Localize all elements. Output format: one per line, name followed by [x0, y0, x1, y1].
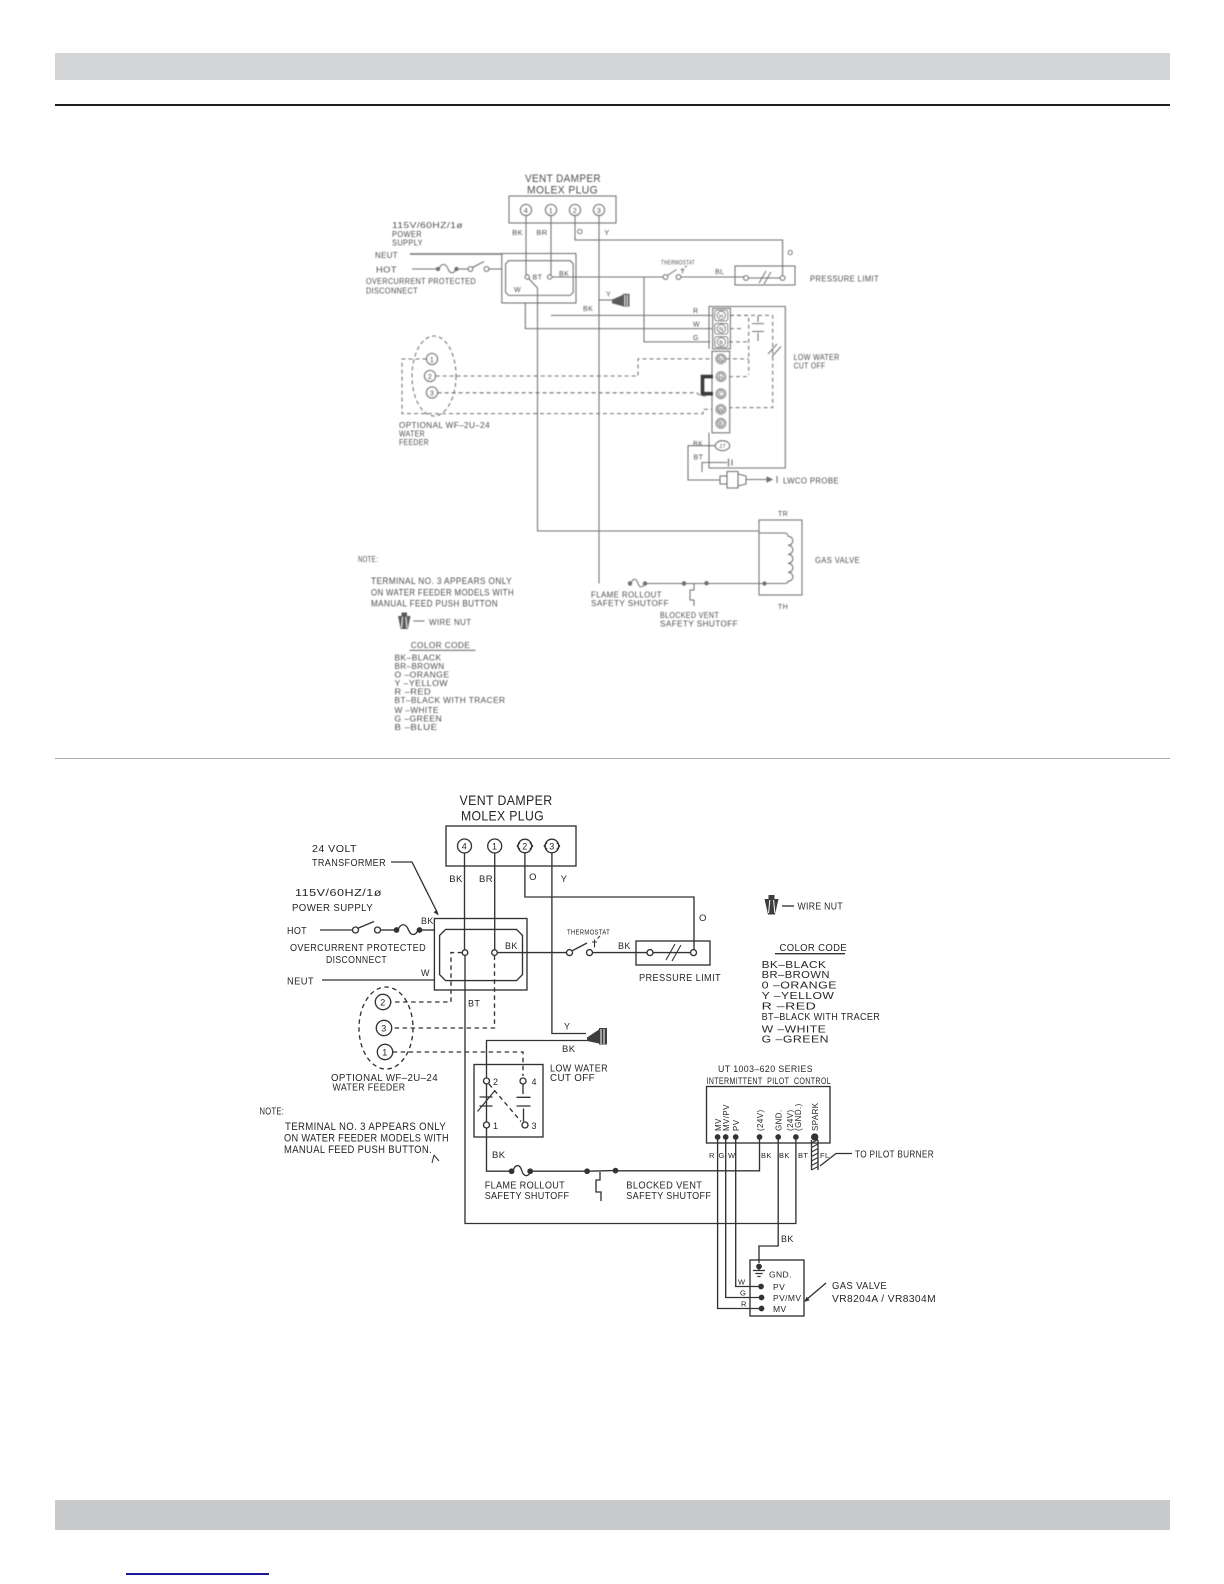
wire R from pilot MV to gas valve MV: [718, 1140, 760, 1309]
svg-text:BT: BT: [798, 1151, 808, 1160]
svg-text:O: O: [699, 913, 707, 924]
fuse on HOT line: [436, 265, 458, 273]
pilot terminal MV: [714, 1118, 723, 1139]
gas valve coil: [759, 533, 793, 584]
svg-text:VENT DAMPER: VENT DAMPER: [460, 792, 553, 808]
wire nut legend dash: [782, 905, 794, 907]
pin 3: [544, 839, 560, 853]
wire HOT segment: [320, 929, 353, 931]
svg-text:SUPPLY: SUPPLY: [392, 239, 423, 248]
svg-text:Y: Y: [604, 228, 609, 237]
svg-text:BK: BK: [505, 941, 518, 951]
transformer T1 outer box: [434, 919, 527, 991]
wire blocked vent to gas valve TH: [708, 583, 759, 585]
water feeder terminal 3: [426, 387, 437, 398]
dashed wire feeder2 to terminal N2: [436, 359, 712, 376]
svg-text:2: 2: [428, 374, 432, 381]
svg-text:WIRE NUT: WIRE NUT: [798, 901, 844, 913]
svg-text:BT: BT: [694, 455, 704, 462]
svg-text:CUT OFF: CUT OFF: [550, 1073, 595, 1084]
terminal B upper: [715, 337, 728, 348]
svg-text:1: 1: [430, 357, 434, 364]
svg-text:J7: J7: [719, 444, 726, 450]
LWCO box: [474, 1065, 543, 1138]
wire rollout to blocked vent: [532, 1170, 585, 1172]
svg-text:GAS VALVE: GAS VALVE: [832, 1281, 887, 1292]
svg-text:Y: Y: [561, 874, 568, 885]
terminal N lower: [716, 354, 726, 364]
svg-text:COLOR CODE: COLOR CODE: [780, 942, 848, 954]
svg-text:OVERCURRENT PROTECTED: OVERCURRENT PROTECTED: [290, 943, 426, 954]
junction box T1 outer: [502, 254, 576, 304]
svg-text:POWER SUPPLY: POWER SUPPLY: [292, 903, 373, 914]
svg-text:SAFETY SHUTOFF: SAFETY SHUTOFF: [591, 599, 669, 608]
wire BK from pilot GND to gas valve GND: [759, 1140, 778, 1264]
svg-text:3: 3: [597, 208, 601, 215]
terminal N upper: [715, 323, 728, 334]
svg-text:1: 1: [492, 842, 497, 852]
disconnect switch SW1: [458, 262, 502, 272]
disconnect switch SW1: [353, 922, 395, 934]
wire W from pilot PV to gas valve PV: [736, 1140, 758, 1287]
pilot terminal 24V: [756, 1109, 765, 1139]
low water cut off label: [550, 1064, 608, 1085]
connector J1 vent damper molex plug body: [509, 196, 616, 223]
pilot control U1 box: [707, 1087, 831, 1144]
dashed wire BT from terminal A to feeder 2: [391, 953, 463, 1002]
terminal A in transformer: [462, 950, 468, 956]
wire rollout to blocked vent: [647, 583, 683, 585]
svg-text:(GND.): (GND.): [794, 1103, 803, 1131]
svg-text:TERMINAL NO. 3 APPEARS ONLY: TERMINAL NO. 3 APPEARS ONLY: [285, 1121, 446, 1133]
svg-text:W: W: [718, 408, 724, 414]
svg-text:BT–BLACK WITH TRACER: BT–BLACK WITH TRACER: [395, 696, 506, 705]
svg-text:BK: BK: [492, 1150, 506, 1161]
gas valve terminal MV: [759, 1304, 786, 1314]
overcurrent protected disconnect label: [290, 943, 426, 966]
terminal H upper: [715, 310, 728, 321]
terminal H lower: [716, 372, 726, 382]
wire NEUT to junction box: [410, 253, 502, 255]
LWCO terminal 2: [484, 1077, 499, 1087]
svg-text:R: R: [741, 1300, 747, 1309]
wire molex pin4 to terminal A: [525, 216, 527, 275]
wire molex pin3 Y down to wire nut: [552, 853, 586, 1034]
wire terminal A blade down to gas valve TR: [529, 279, 759, 531]
svg-text:N: N: [719, 357, 723, 363]
svg-text:4: 4: [524, 208, 528, 215]
svg-text:1: 1: [549, 208, 553, 215]
svg-text:R: R: [709, 1151, 715, 1160]
svg-text:BK: BK: [562, 1044, 576, 1055]
wire R row to terminal H: [551, 314, 712, 316]
svg-text:G: G: [740, 1289, 746, 1298]
svg-text:TO PILOT BURNER: TO PILOT BURNER: [855, 1149, 934, 1161]
LWCO probe capacitor symbol between 4 and 3: [517, 1084, 531, 1122]
svg-text:UT 1003–620 SERIES: UT 1003–620 SERIES: [718, 1064, 813, 1074]
svg-text:TERMINAL NO. 3 APPEARS ONLY: TERMINAL NO. 3 APPEARS ONLY: [371, 576, 512, 586]
LWCO probe gap symbol: [752, 316, 764, 341]
gas valve ground symbol: [753, 1264, 765, 1276]
vent damper molex plug title (diagram 1): [525, 173, 601, 197]
svg-text:BK: BK: [421, 916, 434, 926]
svg-text:NOTE:: NOTE:: [358, 554, 378, 564]
svg-text:VENT DAMPER: VENT DAMPER: [525, 173, 601, 185]
svg-text:MOLEX PLUG: MOLEX PLUG: [461, 808, 544, 824]
jumper H to C thick: [703, 377, 714, 394]
svg-text:WIRE NUT: WIRE NUT: [429, 618, 472, 627]
wire HOT segment: [412, 268, 436, 270]
wire G from pilot MV-PV to gas valve PV-MV: [726, 1140, 760, 1298]
wire terminal B to thermostat: [552, 276, 663, 278]
blocked vent label: [626, 1180, 711, 1203]
color code list: [762, 959, 881, 1046]
note label: [260, 1107, 450, 1157]
svg-text:GAS VALVE: GAS VALVE: [815, 556, 860, 565]
pin 3: [593, 204, 604, 215]
thermostat TSTAT1: [567, 936, 601, 956]
pin 1: [545, 204, 556, 215]
svg-text:HOT: HOT: [376, 266, 397, 275]
terminal strip upper group box: [713, 308, 731, 348]
svg-text:ON WATER FEEDER MODELS WITH: ON WATER FEEDER MODELS WITH: [371, 588, 514, 598]
flame rollout sensor: [628, 579, 646, 587]
wire blocked vent to pilot control 24V: [618, 1139, 760, 1171]
LWCO dashed blade terminal 2 to 3: [489, 1084, 521, 1122]
svg-text:LWCO PROBE: LWCO PROBE: [783, 477, 839, 486]
svg-text:BK: BK: [512, 228, 523, 237]
svg-text:W: W: [693, 322, 700, 329]
svg-text:1: 1: [493, 1121, 498, 1131]
wire G branch from thermostat line down to terminal strip: [644, 277, 710, 342]
svg-text:CUT OFF: CUT OFF: [794, 362, 826, 371]
svg-text:FL: FL: [820, 1151, 830, 1160]
svg-text:H: H: [719, 375, 723, 381]
svg-text:O: O: [529, 872, 537, 883]
svg-text:4: 4: [462, 842, 467, 852]
blocked vent switch: [585, 1168, 618, 1201]
pin 2: [569, 204, 580, 215]
svg-text:COLOR CODE: COLOR CODE: [411, 640, 471, 650]
svg-text:BR: BR: [536, 228, 547, 237]
svg-text:TR: TR: [778, 511, 788, 518]
svg-text:BT: BT: [468, 999, 480, 1009]
water feeder ellipse: [412, 336, 456, 416]
wire nut legend symbol: [398, 613, 411, 630]
wire BT hook down: [702, 463, 706, 473]
wire nut W1: [612, 294, 630, 307]
gas valve terminal PV-MV: [759, 1293, 801, 1303]
junction box T1 inner: [506, 261, 574, 296]
svg-text:BT: BT: [533, 275, 543, 282]
svg-text:ON WATER FEEDER MODELS WITH: ON WATER FEEDER MODELS WITH: [284, 1133, 449, 1145]
water feeder terminal 1: [426, 353, 437, 364]
svg-text:G –GREEN: G –GREEN: [762, 1034, 829, 1046]
wire nut W2 at Y junction: [587, 1028, 607, 1045]
svg-text:NEUT: NEUT: [375, 251, 398, 260]
svg-text:SAFETY SHUTOFF: SAFETY SHUTOFF: [660, 620, 738, 629]
pilot terminal MV-PV: [722, 1104, 731, 1139]
wire thermostat to pressure limit: [593, 952, 648, 954]
svg-text:24 VOLT: 24 VOLT: [312, 844, 357, 855]
LWCO enclosure box: [709, 307, 785, 469]
svg-text:W: W: [728, 1151, 736, 1160]
thermostat TSTAT1: [663, 266, 687, 280]
svg-text:2: 2: [522, 842, 527, 852]
overcurrent protected disconnect label: [366, 277, 476, 296]
svg-text:4: 4: [532, 1077, 537, 1087]
wire BK from wire nut through LWCO terminals 2 and 1: [487, 1041, 588, 1079]
svg-text:BK: BK: [779, 1151, 790, 1160]
svg-text:Y: Y: [606, 292, 611, 299]
svg-text:SPARK: SPARK: [811, 1102, 820, 1131]
svg-text:THERMOSTAT: THERMOSTAT: [661, 261, 695, 267]
gas valve GV1 box: [759, 520, 802, 595]
wire molex pin4 BK down through transformer to bottom rail and BT terminal: [465, 853, 796, 1224]
color code list: [395, 654, 506, 733]
optional water feeder label: [331, 1073, 438, 1094]
LWCO terminal 4: [520, 1077, 537, 1087]
flame rollout sensor: [509, 1166, 532, 1176]
svg-text:GND.: GND.: [769, 1270, 792, 1280]
svg-text:3: 3: [430, 390, 434, 397]
connector J1 vent damper molex plug body: [446, 826, 576, 866]
pin 4: [458, 839, 472, 853]
wire molex pin2 O to pressure limit: [525, 853, 694, 949]
svg-text:Y: Y: [564, 1022, 570, 1032]
pilot terminal SPARK: [811, 1102, 820, 1140]
water feeder terminal 1: [377, 1044, 392, 1059]
svg-text:OVERCURRENT PROTECTED: OVERCURRENT PROTECTED: [366, 277, 476, 286]
pilot control bottom labels: [709, 1151, 830, 1160]
flame rollout label: [485, 1180, 570, 1203]
vent damper molex plug title (diagram 2): [460, 792, 553, 824]
svg-text:BK: BK: [618, 941, 631, 951]
svg-text:O: O: [788, 250, 794, 257]
water feeder ellipse: [359, 987, 413, 1069]
optional water feeder label: [399, 421, 490, 447]
terminal A in box: [525, 275, 529, 279]
transformer T1 inner box: [440, 929, 523, 980]
wire molex pin1 BR to terminal B: [494, 853, 496, 950]
pilot terminal PV: [732, 1119, 741, 1139]
water feeder terminal 2: [424, 370, 435, 381]
svg-text:2: 2: [380, 998, 385, 1008]
svg-text:THERMOSTAT: THERMOSTAT: [567, 928, 610, 937]
power supply label: [292, 888, 382, 914]
gas valve terminal PV: [759, 1282, 785, 1292]
svg-text:MANUAL FEED PUSH BUTTON: MANUAL FEED PUSH BUTTON: [371, 599, 498, 609]
svg-text:G: G: [693, 335, 699, 342]
dashed wire feeder1 loop to terminal W: [402, 359, 712, 414]
svg-text:TRANSFORMER: TRANSFORMER: [312, 858, 386, 869]
svg-text:MV/PV: MV/PV: [722, 1104, 731, 1131]
svg-text:INTERMITTENT PILOT CONTROL: INTERMITTENT PILOT CONTROL: [707, 1076, 832, 1086]
blocked vent label: [660, 611, 738, 629]
LWCO terminal 1: [484, 1121, 499, 1131]
pilot terminal GND: [775, 1109, 784, 1139]
svg-text:DISCONNECT: DISCONNECT: [366, 287, 418, 296]
leader to pilot burner label: [820, 1154, 852, 1167]
svg-text:BK: BK: [761, 1151, 772, 1160]
terminal C lower: [716, 389, 726, 399]
svg-text:NOTE:: NOTE:: [260, 1107, 285, 1118]
terminal strip lower group box: [712, 351, 730, 433]
wire thermostat to pressure limit: [681, 276, 744, 278]
svg-text:MV: MV: [773, 1304, 787, 1314]
svg-text:BR: BR: [479, 874, 493, 885]
svg-text:WATER FEEDER: WATER FEEDER: [333, 1083, 406, 1094]
svg-text:TH: TH: [778, 604, 788, 611]
svg-text:2: 2: [573, 208, 577, 215]
pin 4: [520, 204, 531, 215]
svg-text:BK: BK: [693, 441, 703, 448]
dashed wire feeder3 to terminal C: [438, 393, 706, 396]
svg-text:MANUAL FEED PUSH BUTTON.: MANUAL FEED PUSH BUTTON.: [284, 1144, 432, 1156]
fuse on HOT line: [394, 925, 434, 935]
svg-text:O: O: [577, 227, 583, 236]
gas valve label leader: [804, 1283, 826, 1302]
LWCO float switch slashes: [768, 344, 781, 357]
gas valve label: [832, 1281, 936, 1305]
wire LWCO terminal 1 down to flame rollout: [487, 1128, 510, 1171]
wire NEUT to transformer: [322, 979, 434, 981]
small tick mark under note: [432, 1155, 439, 1163]
svg-text:BL: BL: [715, 269, 724, 276]
svg-text:DISCONNECT: DISCONNECT: [326, 955, 387, 966]
svg-text:3: 3: [532, 1121, 537, 1131]
svg-text:SAFETY SHUTOFF: SAFETY SHUTOFF: [626, 1190, 711, 1202]
blocked vent switch: [682, 582, 708, 607]
svg-text:VR8204A / VR8304M: VR8204A / VR8304M: [832, 1294, 936, 1305]
pilot terminal 24V GND: [786, 1103, 803, 1139]
svg-text:R: R: [693, 308, 698, 315]
LWCO terminal 3: [522, 1121, 537, 1131]
inline connector symbol: [706, 459, 732, 467]
spark wire hatched to pilot burner: [812, 1140, 819, 1171]
24 volt transformer label: [312, 844, 386, 869]
svg-text:B: B: [719, 340, 723, 346]
svg-text:N: N: [719, 327, 723, 333]
svg-text:C: C: [719, 392, 723, 398]
flame rollout label: [591, 591, 669, 609]
svg-text:PRESSURE LIMIT: PRESSURE LIMIT: [810, 275, 879, 284]
wire molex pin3 Y wire down to rollout row: [598, 216, 600, 584]
svg-text:BK: BK: [449, 874, 463, 885]
svg-text:115V/60HZ/1ø: 115V/60HZ/1ø: [392, 221, 463, 230]
wire probe to label arrow: [746, 476, 777, 483]
LWCO internal dashed wiring: [726, 315, 773, 407]
svg-text:NEUT: NEUT: [287, 976, 314, 988]
svg-text:BT–BLACK WITH TRACER: BT–BLACK WITH TRACER: [762, 1011, 881, 1023]
low water cut off label: [794, 353, 840, 371]
pin 1: [488, 839, 502, 853]
svg-text:(24V): (24V): [756, 1109, 765, 1131]
svg-text:G: G: [719, 1151, 725, 1160]
gas valve coil junction dot: [763, 582, 766, 585]
svg-text:PV/MV: PV/MV: [773, 1293, 801, 1303]
water feeder terminal 3: [376, 1020, 391, 1035]
svg-text:HOT: HOT: [287, 925, 307, 937]
wire BK from J7 down to probe: [688, 446, 720, 480]
svg-text:W: W: [421, 968, 430, 978]
pilot control title: [707, 1064, 832, 1086]
gas valve GV1 box: [750, 1260, 804, 1316]
connector J7: [715, 441, 729, 451]
wire molex pin1 to terminal B: [550, 216, 552, 275]
svg-text:B –BLUE: B –BLUE: [395, 723, 438, 732]
svg-text:3: 3: [381, 1024, 386, 1034]
svg-text:BK: BK: [583, 306, 593, 313]
svg-text:SAFETY SHUTOFF: SAFETY SHUTOFF: [485, 1190, 570, 1202]
svg-text:GND.: GND.: [775, 1109, 784, 1131]
wire nut legend symbol: [765, 895, 779, 915]
terminal B lower: [716, 418, 726, 428]
water feeder terminal 2: [375, 994, 390, 1009]
wire nut legend dash: [413, 620, 424, 622]
pressure limit contacts: [647, 944, 697, 961]
dashed wire from terminal B to feeder 3: [392, 955, 495, 1028]
svg-text:PV: PV: [773, 1282, 785, 1292]
svg-text:PRESSURE LIMIT: PRESSURE LIMIT: [639, 973, 721, 984]
svg-text:BK: BK: [781, 1234, 794, 1244]
svg-text:W: W: [738, 1278, 746, 1287]
terminal B in transformer: [492, 950, 498, 956]
svg-text:3: 3: [549, 842, 554, 852]
pressure limit box PL1: [735, 266, 795, 285]
wire nut stub on Y wire: [599, 299, 613, 301]
svg-text:115V/60HZ/1ø: 115V/60HZ/1ø: [295, 888, 382, 899]
svg-text:W: W: [514, 287, 521, 294]
dashed wire feeder 1 to LWCO terminal 4: [393, 1052, 523, 1076]
svg-text:PV: PV: [732, 1119, 741, 1131]
terminal W lower: [716, 405, 726, 415]
terminal B in box: [548, 275, 552, 279]
LWCO probe body: [720, 472, 746, 489]
pressure limit box PL1: [636, 941, 710, 965]
pin 2: [517, 839, 533, 853]
wire terminal B to thermostat: [497, 952, 566, 954]
power supply label: [392, 221, 463, 248]
wire molex pin2 O wire to pressure limit: [575, 216, 783, 276]
svg-text:FEEDER: FEEDER: [399, 438, 429, 447]
note label: [358, 554, 514, 609]
svg-text:1: 1: [382, 1048, 387, 1058]
svg-text:2: 2: [493, 1077, 498, 1087]
leader arrow to transformer: [391, 862, 439, 916]
LWCO switch break ticks and slash: [478, 1091, 495, 1112]
svg-text:H: H: [719, 314, 723, 320]
svg-text:MOLEX PLUG: MOLEX PLUG: [527, 185, 598, 197]
svg-text:B: B: [719, 422, 723, 428]
pressure limit contacts: [744, 271, 785, 284]
wire W row from junction box to terminal N: [525, 303, 712, 329]
